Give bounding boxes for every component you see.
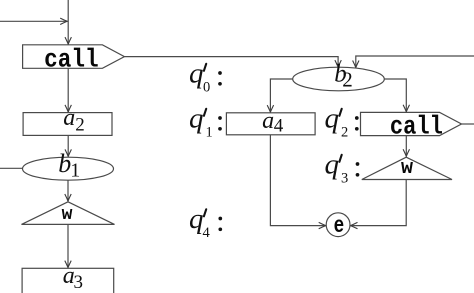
label q'2 (325, 103, 359, 141)
svg-text:q: q (189, 103, 204, 135)
label q'3 (325, 149, 360, 187)
call box C1 (left) (23, 44, 125, 74)
svg-text:2: 2 (342, 68, 353, 92)
branch ellipse b1 (23, 149, 114, 181)
wire: a4 down and right into exit e (270, 135, 326, 226)
while triangle W2 with label w (362, 157, 452, 180)
call box C2 (right) (361, 111, 462, 141)
block a2 (23, 105, 112, 136)
wire: stub from left edge into b1 (0, 167, 23, 169)
svg-text:3: 3 (74, 272, 84, 293)
svg-text:w: w (401, 157, 413, 180)
wire: entry from top into call U1 (67, 0, 69, 44)
label q'1 (189, 103, 222, 141)
wire: call C1 tip to b2 (124, 57, 338, 68)
while triangle W1 with label w (22, 202, 115, 225)
branch ellipse b2 (293, 61, 385, 92)
label q'4 (189, 203, 222, 241)
wire: call C2 to while W2 (405, 136, 407, 157)
svg-text:e: e (334, 213, 345, 239)
wire: W1 to a3 (67, 224, 69, 267)
block a4 (226, 108, 315, 137)
svg-text:a: a (63, 105, 75, 131)
svg-text:call: call (44, 44, 99, 74)
block a3 (clipped at bottom) (22, 263, 114, 293)
exit node e (326, 213, 350, 239)
wire: call C2 tip to right edge (462, 123, 474, 125)
wire: b2 left branch to a4 (270, 79, 292, 112)
svg-text:call: call (390, 111, 443, 141)
label q'0 (189, 58, 222, 96)
svg-text:2: 2 (341, 125, 348, 141)
wire: b1 to while W1 (67, 180, 69, 201)
wire: a2 to b1 (67, 135, 69, 156)
wire: while W2 down and left into exit e (350, 180, 406, 226)
wire: from right edge into b2 (356, 56, 474, 68)
svg-text:q: q (189, 58, 204, 90)
svg-text:3: 3 (341, 171, 348, 187)
svg-text:q: q (325, 103, 340, 135)
svg-text:4: 4 (274, 116, 284, 137)
svg-text:0: 0 (203, 80, 210, 96)
svg-text:1: 1 (70, 159, 80, 181)
wire: call C1 to a2 (67, 68, 69, 112)
svg-text:1: 1 (206, 125, 213, 141)
svg-text:a: a (262, 108, 274, 134)
svg-text:2: 2 (75, 115, 85, 136)
wire: entry from left into node line (0, 20, 67, 22)
svg-text:4: 4 (203, 225, 211, 241)
svg-text:q: q (189, 203, 204, 235)
svg-text:w: w (62, 205, 73, 225)
svg-text:q: q (325, 149, 340, 181)
wire: b2 right branch to call C2 (384, 79, 406, 112)
